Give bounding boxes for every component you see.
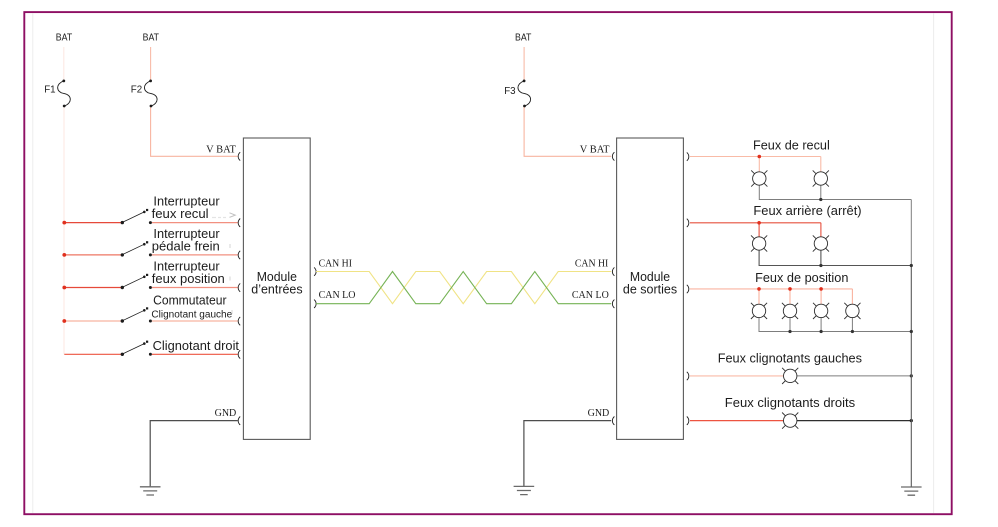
svg-text:CAN HI: CAN HI [319,259,352,270]
svg-text:F1: F1 [44,84,56,96]
svg-text:d’entrées: d’entrées [251,282,302,296]
svg-text:de sorties: de sorties [623,282,677,296]
svg-text:F3: F3 [504,85,516,97]
svg-text:CAN LO: CAN LO [319,290,356,301]
svg-text:Feux clignotants gauches: Feux clignotants gauches [718,351,862,366]
svg-text:BAT: BAT [515,31,532,43]
svg-text:Clignotant droit: Clignotant droit [153,338,240,353]
svg-text:CAN LO: CAN LO [572,290,609,301]
svg-text:GND: GND [588,408,610,419]
svg-text:pédale frein: pédale frein [152,238,220,253]
svg-text:BAT: BAT [143,31,160,43]
svg-text:feux recul: feux recul [152,206,209,221]
svg-text:Feux de recul: Feux de recul [753,137,830,152]
svg-text:BAT: BAT [56,31,73,43]
svg-text:Feux clignotants droits: Feux clignotants droits [725,395,855,410]
svg-text:feux position: feux position [152,271,225,286]
svg-text:F2: F2 [131,84,143,96]
svg-text:GND: GND [215,408,237,419]
svg-text:CAN HI: CAN HI [575,259,608,270]
svg-text:Clignotant gauche: Clignotant gauche [151,310,232,321]
svg-text:Feux de position: Feux de position [755,270,848,285]
svg-text:V BAT: V BAT [580,145,610,156]
svg-text:Feux arrière (arrêt): Feux arrière (arrêt) [753,203,861,218]
svg-text:Commutateur: Commutateur [153,293,227,308]
svg-text:V BAT: V BAT [206,145,236,156]
